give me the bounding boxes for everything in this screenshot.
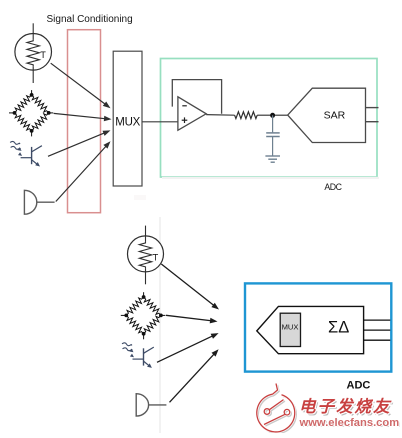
svg-text:ADC: ADC xyxy=(347,380,371,392)
svg-text:MUX: MUX xyxy=(282,323,299,332)
svg-text:MUX: MUX xyxy=(115,116,140,128)
svg-text:ΣΔ: ΣΔ xyxy=(328,319,349,337)
svg-text:电子发烧友: 电子发烧友 xyxy=(299,397,392,416)
svg-text:SAR: SAR xyxy=(324,110,346,122)
svg-text:Signal Conditioning: Signal Conditioning xyxy=(47,14,133,25)
svg-text:ADC: ADC xyxy=(324,182,342,192)
svg-text:T: T xyxy=(40,50,46,60)
svg-text:www.elecfans.com: www.elecfans.com xyxy=(299,417,400,429)
svg-text:T: T xyxy=(153,252,159,262)
